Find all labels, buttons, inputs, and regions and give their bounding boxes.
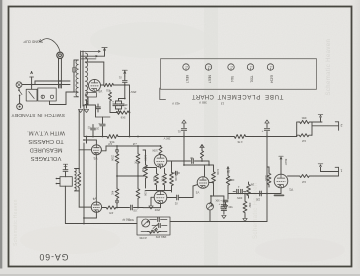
interstage resistors <box>144 155 148 188</box>
svg-text:100K: 100K <box>174 175 177 181</box>
treble row <box>148 230 161 233</box>
tone stack box <box>137 217 170 235</box>
upper AC wire <box>35 80 70 82</box>
V2 output wire <box>213 188 215 196</box>
node wire <box>116 100 122 102</box>
svg-text:V2: V2 <box>195 190 199 194</box>
wire AC <box>22 84 70 86</box>
svg-text:+: + <box>261 130 263 134</box>
svg-text:50K: 50K <box>215 199 220 201</box>
svg-text:5U4: 5U4 <box>230 76 234 82</box>
pot 1M vol <box>226 173 229 188</box>
svg-text:CHART: CHART <box>192 93 214 99</box>
shielded cable <box>58 58 60 88</box>
svg-text:3M3: 3M3 <box>152 177 155 182</box>
speaker return wire <box>64 186 66 223</box>
svg-text:100K: 100K <box>144 190 147 196</box>
svg-text:TUBE: TUBE <box>264 93 283 99</box>
fuse box on primary lead <box>73 68 76 73</box>
power transformer T1 core <box>80 51 82 106</box>
jack 2 resistor 68K <box>298 120 312 123</box>
svg-text:MEG 2H2: MEG 2H2 <box>155 235 166 238</box>
resistor 1M mid <box>247 182 251 198</box>
coupling cap upper .02 <box>167 160 191 162</box>
svg-text:450V: 450V <box>130 90 136 93</box>
svg-text:V5: V5 <box>98 89 102 93</box>
tube chart socket V3 <box>228 64 234 70</box>
V2 plate stub <box>204 165 206 177</box>
svg-text:4.7K: 4.7K <box>237 140 243 144</box>
rail drop to V1 <box>266 137 268 194</box>
cap C22 20/450 <box>102 120 104 123</box>
toggle switch <box>18 88 20 90</box>
switch S1 box <box>26 89 37 101</box>
grid resistor 400 lower <box>115 200 118 203</box>
B+ takeoff wire <box>101 84 104 86</box>
arrow to plug <box>41 39 61 52</box>
svg-text:GA-60: GA-60 <box>39 252 69 262</box>
svg-text:385 V: 385 V <box>199 101 207 105</box>
svg-text:6EU7: 6EU7 <box>208 75 212 83</box>
preamp tube V2A <box>154 155 167 168</box>
interstage wires <box>160 167 162 168</box>
svg-text:450: 450 <box>123 103 128 106</box>
svg-text:+: + <box>98 122 100 126</box>
grid resistor 220K V3 <box>116 146 118 153</box>
V2B grid return ground <box>151 196 154 198</box>
svg-text:+18: +18 <box>132 142 137 145</box>
svg-text:PLACEMENT: PLACEMENT <box>217 93 260 99</box>
tube V1 <box>274 174 288 188</box>
T1 secondary winding <box>85 53 87 105</box>
svg-text:68K: 68K <box>301 116 306 120</box>
B+ rail <box>84 136 107 138</box>
heater tap 6.3V upper <box>81 50 100 52</box>
grid resistor 100K upper <box>137 146 139 153</box>
tube chart socket V4 <box>205 64 211 70</box>
svg-text:7591: 7591 <box>250 75 254 83</box>
svg-text:2/470K: 2/470K <box>139 236 147 239</box>
resistor below 1M <box>243 198 247 216</box>
wire B+ node <box>102 117 104 120</box>
jack 1 ground <box>320 167 322 172</box>
long bottom wire left <box>65 223 137 225</box>
svg-text:13: 13 <box>221 102 225 106</box>
svg-text:100K: 100K <box>144 155 147 161</box>
stray cap right of resistors <box>172 172 176 174</box>
svg-text:5K6: 5K6 <box>120 116 125 120</box>
V1 plate riser <box>280 158 282 174</box>
svg-text:1M: 1M <box>227 170 230 173</box>
svg-text:TO CHASSIS: TO CHASSIS <box>28 138 63 144</box>
svg-text:100K: 100K <box>216 169 219 175</box>
pilot lamp I1 <box>16 82 22 88</box>
svg-text:447: 447 <box>107 142 112 145</box>
tone pot <box>142 219 150 227</box>
preamp tube V2B <box>154 191 167 204</box>
caps 600V <box>236 189 238 193</box>
cap 500 with ground <box>227 196 229 199</box>
jack 2 ground <box>320 118 322 123</box>
svg-text:400: 400 <box>111 191 114 196</box>
heater chain between power tubes <box>95 155 97 202</box>
jack 2 contacts <box>312 125 339 127</box>
rail resistor 4.7K <box>234 135 246 139</box>
grid resistor with ground <box>200 145 204 148</box>
speaker terminals <box>56 178 60 180</box>
svg-text:J.02: J.02 <box>133 208 138 210</box>
decoupling cap to ground at 184 <box>183 132 185 137</box>
output transformer T2 <box>60 177 72 187</box>
svg-text:600V: 600V <box>236 196 242 198</box>
ground below caps <box>222 215 226 218</box>
filter cap C21 40/450 <box>121 101 123 103</box>
svg-text:6EU7: 6EU7 <box>284 159 288 166</box>
svg-text:GZ34: GZ34 <box>270 75 274 83</box>
phono plug P1 <box>57 52 63 58</box>
resistor 100K V1 plate <box>267 171 271 187</box>
svg-text:100K: 100K <box>152 149 158 152</box>
bass cap <box>157 218 159 222</box>
svg-text:270K: 270K <box>160 176 163 182</box>
jack 2 resistor 1M on rail <box>297 134 312 137</box>
svg-text:1500: 1500 <box>154 208 160 211</box>
cathode resistor 47K V4 <box>102 207 105 209</box>
pot top arrow <box>210 202 212 204</box>
mid cap <box>158 224 160 228</box>
svg-text:MEASURED: MEASURED <box>29 146 62 152</box>
tube chart socket V1 <box>267 64 273 70</box>
T1 primary winding <box>76 60 78 97</box>
decoupling cap to ground at 267 <box>266 132 268 137</box>
cap across rectifier <box>97 104 99 106</box>
wire row 193 <box>228 193 281 195</box>
svg-text:6EU7: 6EU7 <box>185 75 189 83</box>
V1 cathode <box>280 188 282 194</box>
power tube V3 <box>91 145 101 155</box>
plate resistor 100K V2 <box>212 167 216 188</box>
svg-text:260 V: 260 V <box>163 136 170 140</box>
grid network wire top <box>101 150 106 152</box>
svg-text:56K: 56K <box>141 168 144 173</box>
AC outlet box <box>38 88 56 101</box>
jack 1 contacts <box>321 171 339 173</box>
jack 1 resistor 1M <box>288 175 298 177</box>
V2A plate resistor <box>159 147 162 155</box>
svg-text:V1: V1 <box>289 187 293 191</box>
fuse F1 <box>31 77 33 89</box>
grid resistor 100K lower <box>136 188 140 199</box>
heater tap 6.3V lower <box>81 55 105 57</box>
coupling cap .02 to V4 <box>130 205 132 210</box>
svg-text:1M: 1M <box>251 182 254 185</box>
svg-text:V3: V3 <box>93 156 97 160</box>
tube placement chart box <box>161 59 317 90</box>
svg-text:100K: 100K <box>134 160 140 162</box>
svg-text:+: + <box>112 100 114 104</box>
divider resistor 5K6 upper <box>117 111 130 114</box>
coupling cap 220 <box>259 191 261 196</box>
V2B cathode stem <box>160 204 162 208</box>
electrolytic caps 500 <box>211 195 224 197</box>
svg-text:1M: 1M <box>302 180 306 184</box>
svg-text:220K: 220K <box>111 155 114 161</box>
screen wires <box>95 140 97 145</box>
svg-text:Schematic Heaven: Schematic Heaven <box>13 199 19 246</box>
svg-text:Schematic Heaven: Schematic Heaven <box>253 182 259 239</box>
svg-text:VOLTAGES: VOLTAGES <box>31 155 62 161</box>
heater tap short <box>81 58 96 60</box>
svg-text:2: 2 <box>341 123 343 127</box>
filter cap C20 40/450 <box>115 101 117 103</box>
feedback cap <box>63 169 68 171</box>
svg-text:WITH V.T.V.M.: WITH V.T.V.M. <box>27 129 65 135</box>
T1 center tap ground <box>85 99 86 101</box>
svg-text:.01: .01 <box>177 130 181 133</box>
heater loop box <box>86 93 97 97</box>
filter ground <box>116 108 122 110</box>
svg-text:500K: 500K <box>128 218 134 221</box>
power tube V4 <box>91 202 101 212</box>
volume pot R vol <box>207 203 214 210</box>
svg-text:1: 1 <box>340 169 342 173</box>
ground drop .01 <box>124 85 126 99</box>
AC plug P2 <box>17 104 23 110</box>
pilot tap <box>104 49 106 56</box>
tube chart socket V5 <box>183 64 189 70</box>
svg-text:220: 220 <box>255 198 260 201</box>
svg-text:2M2: 2M2 <box>248 203 251 208</box>
long bottom wire right <box>170 221 267 223</box>
cap .02 on rail <box>92 125 94 128</box>
svg-text:SWITCH IN STANDBY: SWITCH IN STANDBY <box>11 112 65 118</box>
svg-text:1M: 1M <box>302 139 306 143</box>
svg-text:47K: 47K <box>108 211 113 214</box>
svg-text:415 V: 415 V <box>172 102 180 106</box>
feedback resistor <box>78 169 81 191</box>
cross wire <box>117 175 144 177</box>
rail resistor 5K6 <box>107 135 118 139</box>
svg-text:Schematic Heaven: Schematic Heaven <box>326 39 332 96</box>
rectifier tube V5 <box>89 79 101 91</box>
wire to transformer <box>49 101 51 105</box>
svg-text:500: 500 <box>228 205 233 208</box>
tube chart socket V2 <box>247 64 253 70</box>
chart corner tick <box>159 88 161 100</box>
coupling cap lower <box>167 197 176 199</box>
wire node 165 <box>184 164 214 166</box>
svg-text:GND CLIP: GND CLIP <box>23 40 40 44</box>
phase inverter tube V2 <box>197 177 209 189</box>
supply verticals <box>83 105 85 137</box>
HV winding taps <box>85 61 104 63</box>
plate wires to T2 <box>79 149 91 151</box>
